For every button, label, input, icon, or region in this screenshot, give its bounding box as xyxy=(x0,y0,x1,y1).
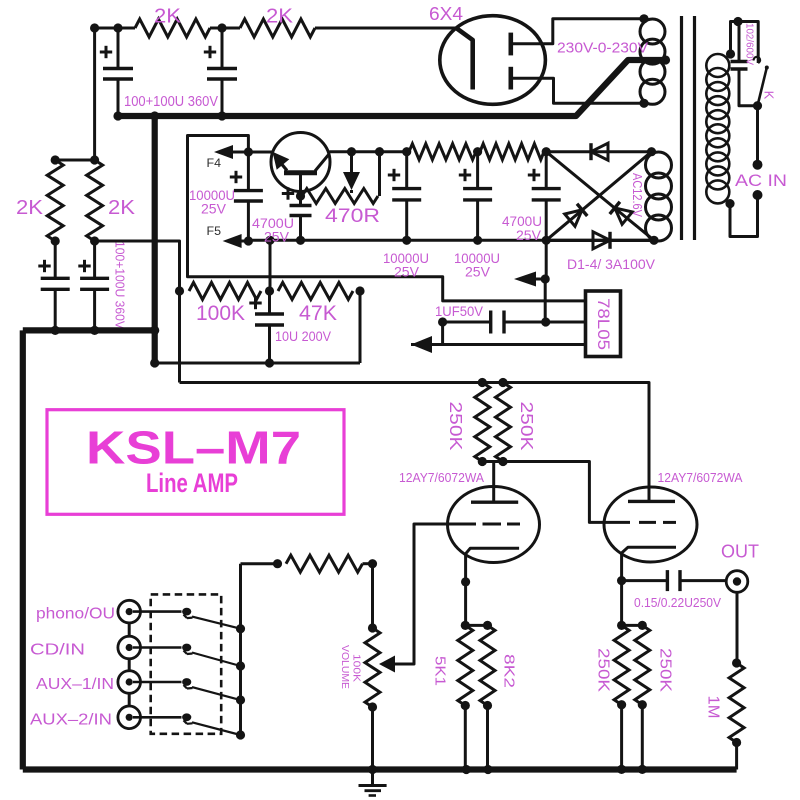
svg-text:250K: 250K xyxy=(446,402,466,451)
svg-text:470R: 470R xyxy=(325,206,380,227)
wire R12 to ground bus xyxy=(464,706,467,770)
wire U1 output line xyxy=(411,343,586,346)
svg-text:phono/OU: phono/OU xyxy=(36,606,115,623)
wire plate node link xyxy=(482,460,503,463)
label R5 470R xyxy=(325,206,380,227)
diode D2 xyxy=(593,232,610,249)
wire jack chain 3 xyxy=(128,693,131,706)
wire C11 right to U1 xyxy=(504,321,586,324)
label R4 2K xyxy=(108,197,136,219)
node divider mid xyxy=(265,286,274,295)
node C9 top xyxy=(473,147,482,156)
resistor R7 filter xyxy=(480,144,544,160)
wire V1 pin to secondary top xyxy=(545,19,644,44)
svg-text:AUX–1/IN: AUX–1/IN xyxy=(36,676,114,693)
label R2 2K xyxy=(266,6,294,28)
label R8 100K xyxy=(196,302,245,325)
svg-text:D1-4/ 3A100V: D1-4/ 3A100V xyxy=(567,256,656,272)
label V2 12AY7/6072WA xyxy=(399,471,485,485)
node R11 top xyxy=(498,378,507,387)
capacitor C9 10000U 25V xyxy=(463,152,492,241)
connector arrow F4 xyxy=(214,145,248,159)
transistor Q1 emitter lead xyxy=(299,175,302,196)
svg-text:6X4: 6X4 xyxy=(429,4,463,24)
capacitor C8 10000U 25V xyxy=(392,152,421,241)
wire primary top lead xyxy=(731,22,739,55)
node pot ground xyxy=(368,765,377,774)
node R14 bottom xyxy=(617,700,626,709)
tube V2 plate xyxy=(471,501,518,504)
tube V2 cathode xyxy=(466,548,519,562)
switch contact 1 xyxy=(182,608,192,618)
label AC IN terminal wire xyxy=(0,0,1,1)
svg-text:1M: 1M xyxy=(705,696,722,719)
node R14 ground xyxy=(617,765,626,774)
diode D3 xyxy=(610,202,633,225)
node secondary top xyxy=(639,14,648,23)
label secondary 230V-0-230V xyxy=(557,40,648,57)
label C5 102/600V xyxy=(744,23,756,65)
svg-text:VOLUME: VOLUME xyxy=(339,645,351,689)
wire bias node to 100K xyxy=(95,241,180,383)
node ground stub join xyxy=(150,326,159,335)
node R12 top xyxy=(461,621,470,630)
node C8 bottom xyxy=(402,236,411,245)
node C1 top xyxy=(113,23,122,32)
node R10 top xyxy=(478,378,487,387)
wire J1 to contact xyxy=(133,610,182,613)
wire primary bottom lead xyxy=(730,195,758,237)
node bus tap 3 xyxy=(236,695,245,704)
node R15 bottom xyxy=(638,700,647,709)
node fuse top xyxy=(733,17,742,26)
label D1-4 3A100V xyxy=(567,256,656,272)
svg-text:100K: 100K xyxy=(351,654,363,682)
label C11 1UF50V xyxy=(435,303,484,319)
svg-text:10U 200V: 10U 200V xyxy=(275,328,332,344)
wire jack chain 1 xyxy=(128,623,131,636)
node R15 ground xyxy=(638,765,647,774)
svg-text:2K: 2K xyxy=(108,197,136,219)
svg-text:100+100U 360V: 100+100U 360V xyxy=(113,241,128,329)
svg-text:F4: F4 xyxy=(207,156,222,170)
transistor Q1 collector diagonal xyxy=(273,152,290,171)
label C6 10000U 25V xyxy=(189,187,235,217)
wire heater loop F4 to 78L05 input xyxy=(188,136,586,301)
jack OUT xyxy=(726,571,748,593)
capacitor C12 10U 200V xyxy=(255,291,284,363)
switch contact 3 xyxy=(182,678,192,688)
wire R3 R4 top link xyxy=(55,159,94,162)
svg-text:100K: 100K xyxy=(196,302,245,325)
svg-text:CD/IN: CD/IN xyxy=(30,642,85,659)
wire V2 plate lead xyxy=(492,462,495,503)
node bias return left xyxy=(150,358,159,367)
wire J2 to contact xyxy=(133,646,182,649)
wire coupling to V3 grid xyxy=(503,462,604,523)
resistor R6 filter xyxy=(409,144,476,160)
node primary bottom xyxy=(725,199,734,208)
transistor Q1 base bar xyxy=(284,170,317,175)
tube V3 cathode xyxy=(622,547,676,561)
wire thick ground stub vertical xyxy=(152,116,158,363)
svg-text:100+100U 360V: 100+100U 360V xyxy=(124,94,218,110)
diode D4 xyxy=(565,204,588,227)
plus C9 xyxy=(459,169,471,181)
wire selector bus xyxy=(239,564,242,735)
label J4 AUX-2/IN xyxy=(30,711,112,728)
jack J4 AUX-2/IN xyxy=(118,706,141,729)
wire bridge diagonal TL-BR xyxy=(546,152,654,241)
tube V3 plate xyxy=(628,500,675,503)
node Q1 emitter xyxy=(296,191,305,200)
label OUT xyxy=(721,541,759,562)
label C7 4700U 25V xyxy=(252,215,294,245)
node R13 ground xyxy=(483,765,492,774)
node pot bottom xyxy=(368,702,377,711)
switch contact 4 xyxy=(182,713,192,723)
node grid resistor right xyxy=(368,559,377,568)
label R3 2K xyxy=(16,197,44,219)
switch blade 2 xyxy=(192,653,241,667)
capacitor C1 100+100U 360V section a xyxy=(103,28,133,116)
node R13 top xyxy=(483,621,492,630)
node A1 xyxy=(90,23,99,32)
title box xyxy=(47,410,344,515)
resistor R14 250K xyxy=(614,625,629,704)
resistor R17 grid xyxy=(286,555,363,572)
tube V1 6X4 envelope xyxy=(440,16,546,105)
node R12 ground xyxy=(462,765,471,774)
diode D5 xyxy=(343,152,360,193)
wire C11 to output line xyxy=(441,322,444,345)
wire bias return xyxy=(155,362,360,365)
transformer T1 primary winding xyxy=(706,54,729,203)
ground symbol xyxy=(359,770,387,796)
wire thick HV bus xyxy=(116,60,664,116)
plus C6 xyxy=(230,171,242,183)
svg-text:1UF50V: 1UF50V xyxy=(435,303,484,319)
label C10 4700U 25V xyxy=(502,213,542,243)
node D5 top xyxy=(347,147,356,156)
transistor Q1 case xyxy=(271,133,330,192)
label C1 C2 value xyxy=(124,94,218,110)
node R3 R4 top xyxy=(51,155,100,164)
tube V2 envelope xyxy=(448,487,540,563)
svg-text:AC12.6V: AC12.6V xyxy=(630,173,644,218)
wire out cap to jack xyxy=(680,579,726,582)
node secondary center tap xyxy=(661,55,670,64)
label R14 250K xyxy=(595,648,612,693)
wire AC terminal upper xyxy=(756,106,759,165)
resistor R9 47K xyxy=(278,283,353,300)
capacitor C6 10000U 25V xyxy=(234,152,263,241)
node 47K right xyxy=(355,286,364,295)
wire bridge top xyxy=(546,150,651,153)
connector arrow heater ground xyxy=(514,272,545,287)
node R11 bottom xyxy=(498,457,507,466)
capacitor C4 100+100U 360V xyxy=(80,241,109,330)
wire bridge neg drop xyxy=(545,240,548,279)
title KSL-M7 xyxy=(86,422,301,474)
resistor R12 5K1 xyxy=(458,625,473,705)
node C11 left xyxy=(438,317,447,326)
resistor R15 250K xyxy=(635,625,650,704)
tube V1 plate xyxy=(456,28,473,90)
label C9 10000U 25V xyxy=(454,250,500,280)
wire V2 grid lead xyxy=(394,524,448,664)
wire switch feed xyxy=(738,22,758,64)
tube V3 grid xyxy=(604,521,676,524)
node bus tap 4 xyxy=(236,730,245,739)
node heater ground tap xyxy=(541,274,550,283)
plus C4 xyxy=(78,260,90,272)
svg-text:Line AMP: Line AMP xyxy=(146,468,238,498)
label V1 6X4 xyxy=(429,4,463,24)
node pot top xyxy=(368,623,377,632)
label C12 10U 200V xyxy=(275,328,332,344)
pot wiper arrow xyxy=(379,656,395,673)
label F5 xyxy=(207,224,222,238)
node F4 xyxy=(244,147,253,156)
svg-text:25V: 25V xyxy=(264,229,290,245)
resistor R13 8K2 xyxy=(480,625,495,705)
wire pot wiper to grid xyxy=(394,663,414,666)
label R11 250K xyxy=(517,402,537,451)
svg-text:5K1: 5K1 xyxy=(432,656,449,686)
jack J2 CD/IN xyxy=(118,636,141,659)
switch blade 3 xyxy=(192,687,241,700)
resistor R10 250K xyxy=(475,383,490,462)
wire jack chain 2 xyxy=(128,659,131,671)
svg-text:OUT: OUT xyxy=(721,541,759,562)
tube V1 cathode top xyxy=(511,33,545,56)
node bridge BL xyxy=(542,236,551,245)
wire thick bottom ground bus xyxy=(23,766,737,772)
resistor R2 2K xyxy=(240,19,315,37)
wire V3 cathode lead xyxy=(620,561,623,625)
node switch bottom xyxy=(753,101,762,110)
svg-text:25V: 25V xyxy=(516,227,542,243)
wire bridge bottom xyxy=(546,239,654,242)
capacitor C3 100+100U 360V xyxy=(41,241,70,330)
node grid resistor left xyxy=(273,559,282,568)
node bus tap 2 xyxy=(236,661,245,670)
wire Q1 collector in xyxy=(248,151,272,154)
node C4 ground xyxy=(90,326,99,335)
svg-text:2K: 2K xyxy=(266,6,294,28)
label R15 250K xyxy=(657,648,674,693)
switch blade 1 xyxy=(192,617,241,629)
node bus junction left xyxy=(150,111,159,120)
wire bias tap xyxy=(269,240,272,291)
node bridge TL xyxy=(542,147,551,156)
wire top rail left xyxy=(95,27,135,30)
node B1 xyxy=(217,23,226,32)
wire heater negative rail xyxy=(248,239,546,242)
diode D1 xyxy=(591,143,608,160)
wire R13 to ground bus xyxy=(486,706,489,770)
node bias tap top xyxy=(265,236,274,245)
svg-text:AUX–2/IN: AUX–2/IN xyxy=(30,711,112,728)
switch blade 4 xyxy=(192,722,241,735)
node R3 bottom xyxy=(51,236,60,245)
wire between R1 R2 xyxy=(210,27,240,30)
resistor R4 2K xyxy=(87,160,103,241)
wire thick cap ground link xyxy=(23,327,155,333)
plus C12 xyxy=(249,297,261,309)
capacitor C13 output xyxy=(667,570,680,591)
svg-text:2K: 2K xyxy=(154,6,182,28)
tube V1 cathode bottom xyxy=(511,67,545,90)
label J1 phono/OU xyxy=(36,606,115,623)
svg-text:8K2: 8K2 xyxy=(501,654,518,688)
wire R2 to rectifier tube xyxy=(315,27,457,30)
wire heater positive rail xyxy=(330,150,411,153)
resistor R3 2K xyxy=(47,160,63,241)
potentiometer VR1 100K xyxy=(365,628,380,707)
wire thick left ground bus xyxy=(20,330,26,769)
wire J3 to contact xyxy=(133,681,182,684)
label VR1 100K xyxy=(351,654,363,682)
node R16 top xyxy=(732,658,741,667)
label J2 CD/IN xyxy=(30,642,85,659)
label R9 47K xyxy=(299,302,337,325)
svg-text:0.15/0.22U250V: 0.15/0.22U250V xyxy=(634,596,722,610)
label AC IN xyxy=(735,171,787,190)
wire R14 to ground bus xyxy=(620,705,623,770)
capacitor C5 102/600V xyxy=(731,22,758,106)
node C12 bottom xyxy=(265,358,274,367)
node AC terminal upper xyxy=(753,160,763,170)
svg-text:25V: 25V xyxy=(465,264,491,280)
transformer T1 secondary HV winding xyxy=(640,19,665,104)
label R10 250K xyxy=(446,402,466,451)
wire selector bus to grid resistor xyxy=(241,562,278,565)
wire pot to ground bus xyxy=(371,707,374,770)
transformer T1 core xyxy=(682,16,695,240)
node C2 bottom xyxy=(217,111,226,120)
node 100K left xyxy=(175,286,184,295)
label R12 5K1 xyxy=(432,656,449,686)
label C8 10000U 25V xyxy=(383,250,429,280)
label R16 1M xyxy=(705,696,722,719)
capacitor C10 4700U 25V xyxy=(532,152,561,241)
svg-text:230V-0-230V: 230V-0-230V xyxy=(557,40,648,57)
resistor R8 100K xyxy=(189,283,261,300)
resistor R5 470R xyxy=(302,189,378,204)
plus C2 xyxy=(204,46,216,58)
wire 47K right drop xyxy=(359,291,362,363)
resistor R11 250K xyxy=(496,383,511,462)
wire V2 cathode lead xyxy=(464,562,467,625)
capacitor C2 100+100U 360V section b xyxy=(207,28,237,116)
tube V2 grid xyxy=(448,523,520,526)
wire bridge diagonal TR-BL xyxy=(546,152,651,241)
label V3 12AY7/6072WA xyxy=(658,471,744,485)
node R13 bottom xyxy=(483,701,492,710)
switch contact 2 xyxy=(182,644,192,654)
svg-text:2K: 2K xyxy=(16,197,44,219)
node R16 bottom xyxy=(732,738,741,747)
wire cathode node link xyxy=(465,624,487,627)
label U1 78L05 xyxy=(594,298,612,350)
label C3 C4 value xyxy=(113,241,128,329)
wire cathode to out cap xyxy=(622,579,668,582)
subtitle Line AMP xyxy=(146,468,238,498)
wire bridge neg to regulator xyxy=(544,279,547,322)
wire R15 to ground bus xyxy=(641,705,644,770)
jack J3 AUX-1/IN xyxy=(118,671,141,694)
switch K blade xyxy=(754,57,769,106)
node bridge BR xyxy=(649,236,658,245)
wire OUT to 1M xyxy=(736,592,739,663)
wire V1 pin to secondary bottom xyxy=(545,78,644,103)
resistor R1 2K xyxy=(135,19,210,37)
capacitor C11 1UF50V xyxy=(491,311,504,334)
svg-text:AC IN: AC IN xyxy=(735,171,787,190)
node C8 top xyxy=(402,147,411,156)
connector arrow 5V out xyxy=(411,336,432,353)
node R14 top xyxy=(617,621,626,630)
node C7 bottom xyxy=(296,236,305,245)
ic U1 78L05 body xyxy=(586,291,621,357)
svg-text:12AY7/6072WA: 12AY7/6072WA xyxy=(399,471,485,485)
wire R17 to pot xyxy=(363,564,373,628)
transformer T1 heater winding xyxy=(646,152,672,241)
svg-text:25V: 25V xyxy=(394,264,420,280)
svg-text:250K: 250K xyxy=(657,648,674,693)
tube V3 envelope xyxy=(604,487,697,562)
label J3 AUX-1/IN xyxy=(36,676,114,693)
node R4 bottom xyxy=(90,236,99,245)
resistor R16 1M xyxy=(729,663,744,743)
wire left drop from top rail xyxy=(93,28,96,160)
capacitor C7 4700U 25V xyxy=(290,196,312,240)
node R15 top xyxy=(638,621,647,630)
label F4 xyxy=(207,156,222,170)
label AC12.6V xyxy=(630,173,644,218)
connector arrow F5 xyxy=(223,234,249,248)
node C9 bottom xyxy=(473,236,482,245)
plus C10 xyxy=(528,169,540,181)
svg-text:KSL–M7: KSL–M7 xyxy=(86,422,301,474)
wire R5 riser xyxy=(378,152,381,196)
plus C1 xyxy=(100,46,112,58)
node C3 ground xyxy=(51,326,60,335)
svg-text:F5: F5 xyxy=(207,224,222,238)
label VR1 VOLUME xyxy=(339,645,351,689)
plus C3 xyxy=(38,260,50,272)
label C13 value xyxy=(634,596,722,610)
plus C7 xyxy=(282,187,294,199)
wire J4 to contact xyxy=(133,716,182,719)
node secondary bottom xyxy=(639,99,648,108)
label switch K xyxy=(762,91,777,100)
node R12 bottom xyxy=(461,701,470,710)
node primary top xyxy=(726,49,735,58)
node R5 riser top xyxy=(375,147,384,156)
node bus tap 1 xyxy=(236,624,245,633)
svg-text:25V: 25V xyxy=(201,201,227,217)
node bridge TR xyxy=(647,147,656,156)
node F5 xyxy=(244,236,253,245)
svg-text:K: K xyxy=(762,91,777,100)
wire B+ feed line xyxy=(180,383,650,502)
selector dashed box xyxy=(151,594,222,733)
wire V3 cathode node link xyxy=(622,624,643,627)
wire C11 left lead xyxy=(443,321,491,324)
